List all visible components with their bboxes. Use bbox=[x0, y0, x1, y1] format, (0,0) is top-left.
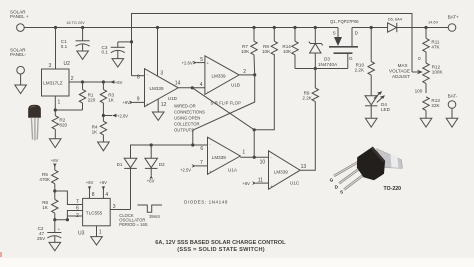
wire R1 bottom to ADJ node bbox=[55, 109, 82, 111]
svg-text:13: 13 bbox=[301, 164, 307, 170]
svg-text:TO-220: TO-220 bbox=[384, 186, 402, 192]
wire 555 pin 4 +6V bbox=[99, 180, 107, 199]
capacitor C2 electrolytic bbox=[37, 220, 61, 243]
svg-text:TLC555: TLC555 bbox=[86, 210, 103, 215]
node pulse waveform 39mS bbox=[138, 205, 163, 219]
node junction gate bbox=[314, 67, 317, 70]
svg-text:COLLECTOR: COLLECTOR bbox=[174, 121, 200, 126]
wire U1D pin 9 +6V bbox=[122, 100, 144, 105]
node junction R1 top bbox=[81, 80, 84, 83]
wire U1B pin 5 +2.6V bbox=[182, 60, 205, 65]
svg-text:S: S bbox=[333, 30, 336, 35]
svg-text:2: 2 bbox=[243, 69, 246, 75]
diode D3 zener 1N4740A bbox=[309, 28, 338, 69]
wire U1C pin 11 +6V bbox=[242, 181, 268, 186]
node junction ADJ bbox=[54, 108, 57, 111]
svg-text:S-R FLIP FLOP: S-R FLIP FLOP bbox=[211, 101, 242, 106]
svg-text:+6V: +6V bbox=[115, 80, 123, 85]
node +6V flag above R5 bbox=[51, 158, 59, 170]
wire LM317 output +6V line bbox=[69, 81, 110, 83]
svg-text:MAX: MAX bbox=[398, 63, 408, 68]
svg-text:100: 100 bbox=[415, 88, 423, 93]
wire U1D output 14 to U1B pin 4 bbox=[178, 87, 205, 89]
op-amp U1D LM339 bbox=[145, 69, 179, 107]
svg-text:D2: D2 bbox=[159, 162, 165, 167]
svg-text:+2.6V: +2.6V bbox=[182, 60, 193, 65]
svg-text:6: 6 bbox=[200, 146, 203, 152]
svg-text:LM339: LM339 bbox=[274, 169, 288, 174]
resistor R14 bbox=[282, 28, 298, 69]
terminal BAT+ bbox=[448, 15, 460, 32]
ground BAT- bbox=[446, 118, 458, 127]
svg-text:39mS: 39mS bbox=[149, 214, 160, 219]
wire drain segment to D5 bbox=[352, 27, 388, 29]
svg-text:U1B: U1B bbox=[231, 83, 240, 88]
svg-text:12: 12 bbox=[161, 102, 167, 108]
wire D5 to BAT+ bbox=[397, 27, 448, 29]
wire main 16-20V rail (source segment) bbox=[24, 27, 338, 29]
wire U1A pin 7 +2.5V bbox=[180, 164, 208, 172]
svg-text:7: 7 bbox=[76, 199, 79, 205]
svg-text:U1A: U1A bbox=[228, 167, 238, 172]
svg-text:3: 3 bbox=[49, 63, 52, 69]
wire LM317 ADJ pin 1 bbox=[54, 96, 56, 110]
resistor R6 bbox=[42, 191, 58, 220]
wire wired-or node line bbox=[131, 145, 208, 158]
svg-text:2.2K: 2.2K bbox=[355, 68, 365, 73]
svg-text:+6V: +6V bbox=[147, 178, 155, 183]
ground D4 bbox=[365, 118, 377, 127]
svg-text:LED: LED bbox=[381, 107, 391, 112]
svg-text:14: 14 bbox=[175, 80, 181, 86]
wire solar minus to ground bbox=[20, 74, 22, 85]
svg-text:(SSS = SOLID STATE SWITCH): (SSS = SOLID STATE SWITCH) bbox=[177, 247, 265, 253]
transistor Q1 FQP27P06 P-MOSFET bbox=[329, 19, 359, 69]
svg-text:2.2K: 2.2K bbox=[302, 95, 312, 100]
svg-text:PANEL-: PANEL- bbox=[10, 52, 27, 57]
transistor TO-92 package photo bbox=[29, 105, 41, 141]
svg-text:+6V: +6V bbox=[242, 181, 250, 186]
svg-text:U1D: U1D bbox=[168, 96, 178, 101]
transistor TO-220 package photo bbox=[330, 147, 403, 195]
node title bbox=[155, 240, 286, 253]
resistor R1 bbox=[79, 82, 95, 110]
op-amp U1A LM339 bbox=[208, 137, 241, 174]
potentiometer R12 MAX VOLTAGE ADJUST bbox=[412, 63, 443, 93]
resistor R8 bbox=[262, 28, 278, 55]
svg-text:4: 4 bbox=[105, 192, 108, 198]
svg-text:LM317LZ: LM317LZ bbox=[43, 81, 63, 86]
node junction C1 bbox=[81, 26, 84, 29]
svg-text:D1: D1 bbox=[117, 162, 123, 167]
wire flip-flop cross U1D out to reset node bbox=[192, 88, 254, 130]
ground C1 bbox=[77, 51, 89, 59]
svg-text:G: G bbox=[349, 56, 353, 61]
resistor R3 bbox=[100, 82, 115, 116]
capacitor C1 bbox=[61, 28, 90, 52]
svg-text:8: 8 bbox=[137, 75, 140, 81]
node junction U1A out bbox=[253, 156, 256, 159]
ground R2 bbox=[49, 139, 61, 148]
wire reset node to U1A output node bbox=[253, 130, 255, 157]
svg-text:1: 1 bbox=[99, 230, 102, 236]
op-amp U1C LM339 bbox=[269, 151, 301, 190]
node WIRED-OR note bbox=[174, 103, 205, 132]
diode D2 bbox=[145, 145, 165, 168]
ground R4 bbox=[98, 142, 110, 151]
svg-text:10K: 10K bbox=[262, 49, 271, 54]
svg-text:0.1: 0.1 bbox=[61, 44, 68, 49]
terminal SOLAR PANEL - bbox=[10, 47, 27, 74]
timer U3 TLC555 bbox=[83, 198, 111, 225]
node junction D2 top bbox=[150, 143, 153, 146]
svg-text:LM339: LM339 bbox=[212, 73, 226, 78]
node junction R11 top bbox=[424, 26, 427, 29]
svg-text:D5, 6A4: D5, 6A4 bbox=[388, 16, 403, 21]
svg-text:+2.6V: +2.6V bbox=[117, 114, 128, 119]
svg-text:820: 820 bbox=[59, 122, 67, 127]
svg-text:DIODES: 1N4148: DIODES: 1N4148 bbox=[184, 200, 228, 205]
svg-text:4: 4 bbox=[200, 82, 203, 88]
svg-text:10K: 10K bbox=[241, 49, 250, 54]
resistor R9 bbox=[302, 69, 318, 105]
svg-text:0: 0 bbox=[418, 56, 421, 61]
svg-text:220: 220 bbox=[88, 97, 96, 102]
wire D1 cathode to clock bbox=[130, 168, 132, 209]
ground U1D pin 12 bbox=[152, 112, 164, 120]
svg-text:LM339: LM339 bbox=[212, 155, 226, 160]
wire U1B output 2 bbox=[239, 74, 255, 76]
node junction R7 top bbox=[252, 26, 255, 29]
svg-text:1: 1 bbox=[58, 100, 61, 106]
svg-text:USING OPEN: USING OPEN bbox=[174, 115, 200, 120]
wire C3 tap bbox=[118, 41, 132, 43]
wire 555 output pin 3 to D1 bbox=[110, 209, 130, 211]
capacitor C3 bbox=[102, 42, 125, 59]
svg-text:WIRED-OR: WIRED-OR bbox=[174, 103, 196, 108]
svg-text:10K: 10K bbox=[283, 49, 292, 54]
node junction C3 tap bbox=[130, 40, 133, 43]
node junction R5 R6 bbox=[53, 189, 56, 192]
op-amp U1B LM339 bbox=[205, 56, 240, 95]
svg-text:0.1: 0.1 bbox=[102, 50, 109, 55]
node +6V flag at regulator output bbox=[110, 80, 123, 85]
terminal BAT- bbox=[448, 94, 458, 109]
node junction R14 top bbox=[293, 26, 296, 29]
resistor R10 bbox=[355, 28, 375, 96]
regulator U2 LM317LZ bbox=[42, 69, 70, 96]
ground solar minus bbox=[15, 85, 27, 94]
node junction D3 top bbox=[314, 26, 317, 29]
svg-text:9: 9 bbox=[137, 96, 140, 102]
wire sense into U1D pin 8 bbox=[132, 75, 145, 77]
node junction R8 top bbox=[273, 26, 276, 29]
resistor R7 bbox=[241, 28, 257, 75]
wire R5-R6 junction to 555 pin 7 bbox=[55, 191, 83, 205]
svg-text:S: S bbox=[340, 190, 343, 195]
ground R13 bbox=[420, 118, 432, 127]
svg-text:PANEL +: PANEL + bbox=[10, 14, 29, 19]
node junction +2.6V divider bbox=[102, 114, 105, 117]
svg-text:+6V: +6V bbox=[51, 158, 59, 163]
ground 555 pin 1 bbox=[91, 237, 103, 245]
svg-text:470K: 470K bbox=[39, 177, 51, 182]
ground C2 bbox=[49, 242, 61, 250]
svg-text:CONNECTIONS: CONNECTIONS bbox=[174, 109, 205, 114]
svg-text:LM339: LM339 bbox=[150, 86, 164, 91]
svg-text:U3: U3 bbox=[78, 230, 85, 236]
svg-text:PERIOD = 16S: PERIOD = 16S bbox=[119, 222, 147, 227]
wire U1C output 13 to R9 bbox=[300, 105, 315, 171]
diode D1 bbox=[117, 158, 137, 168]
wire LM317 input pin 3 bbox=[55, 28, 57, 70]
svg-text:6: 6 bbox=[76, 206, 79, 212]
resistor R13 bbox=[423, 97, 441, 119]
svg-text:1K: 1K bbox=[42, 205, 49, 210]
svg-text:14.6V: 14.6V bbox=[428, 19, 439, 24]
diode D5 6A4 bbox=[388, 16, 403, 32]
svg-text:+6V: +6V bbox=[86, 180, 94, 185]
svg-text:25V: 25V bbox=[37, 236, 46, 241]
svg-text:BAT+: BAT+ bbox=[448, 15, 460, 20]
terminal SOLAR PANEL + bbox=[10, 9, 29, 31]
svg-text:U1C: U1C bbox=[290, 180, 300, 185]
svg-text:1: 1 bbox=[242, 150, 245, 156]
ground C3 bbox=[112, 59, 124, 67]
resistor R5 bbox=[39, 170, 58, 191]
svg-text:ADJUST: ADJUST bbox=[392, 74, 410, 79]
node junction R3 top bbox=[102, 80, 105, 83]
svg-text:+6V: +6V bbox=[122, 100, 130, 105]
svg-text:+2.5V: +2.5V bbox=[180, 167, 191, 172]
node clock oscillator note bbox=[119, 213, 147, 227]
svg-text:16 TO 20V: 16 TO 20V bbox=[66, 21, 85, 25]
resistor R4 bbox=[92, 116, 107, 143]
svg-text:+6V: +6V bbox=[99, 180, 107, 185]
wire gate node bbox=[295, 68, 348, 70]
wire flip-flop cross U1B out to wired-or node bbox=[193, 75, 255, 145]
node junction R6 C2 bbox=[53, 218, 56, 221]
svg-text:2: 2 bbox=[76, 213, 79, 219]
svg-text:22K: 22K bbox=[431, 103, 440, 108]
svg-text:OUTPUTS: OUTPUTS bbox=[174, 127, 194, 132]
svg-text:Q1, FQP27P06: Q1, FQP27P06 bbox=[330, 19, 359, 24]
svg-text:10: 10 bbox=[260, 160, 266, 166]
resistor R11 bbox=[423, 28, 441, 64]
pin labels TLC555 left bbox=[76, 199, 79, 219]
node junction reset bbox=[253, 128, 256, 131]
wire R8 pulldown leg bbox=[254, 54, 274, 130]
wire U1A output to U1C pin 10 bbox=[240, 156, 268, 158]
wire U1D Vcc pin 3 bbox=[157, 28, 159, 77]
wire 555 pin 1 ground lead bbox=[96, 226, 98, 237]
svg-text:1K: 1K bbox=[108, 97, 115, 102]
node junction pins 2-6 tie bbox=[66, 218, 69, 221]
wire 555 pin 8 +6V bbox=[86, 180, 94, 199]
svg-text:3: 3 bbox=[113, 204, 116, 210]
svg-text:D3: D3 bbox=[324, 57, 330, 62]
node +6V flag below D2 bbox=[147, 168, 155, 183]
svg-text:11: 11 bbox=[258, 177, 263, 183]
svg-text:2: 2 bbox=[71, 76, 74, 82]
svg-text:BAT-: BAT- bbox=[448, 94, 458, 99]
node junction LM317 input bbox=[54, 26, 57, 29]
svg-text:47K: 47K bbox=[431, 45, 440, 50]
node junction flip-flop set bbox=[191, 86, 194, 89]
wire trigger-threshold tie to pins 6 and 2 bbox=[55, 211, 83, 220]
svg-text:VOLTAGE: VOLTAGE bbox=[389, 69, 410, 74]
svg-text:7: 7 bbox=[200, 160, 203, 166]
svg-text:100K: 100K bbox=[432, 69, 444, 74]
svg-text:U2: U2 bbox=[64, 61, 71, 67]
resistor R2 bbox=[52, 110, 67, 139]
wire BAT- to ground bbox=[451, 108, 453, 118]
node junction U1D Vcc bbox=[156, 26, 159, 29]
svg-text:5: 5 bbox=[200, 57, 203, 63]
node junction U1B out R7 bbox=[253, 73, 256, 76]
node junction wired-or set bbox=[191, 143, 194, 146]
svg-text:1K: 1K bbox=[92, 130, 99, 135]
node +2.6V flag bbox=[103, 114, 128, 119]
node junction R10 top bbox=[370, 26, 373, 29]
node MAX VOLTAGE ADJUST label bbox=[389, 63, 410, 79]
svg-text:6A, 12V SSS BASED SOLAR CHARGE: 6A, 12V SSS BASED SOLAR CHARGE CONTROL bbox=[155, 240, 286, 246]
svg-text:8: 8 bbox=[92, 192, 95, 198]
svg-text:G: G bbox=[330, 177, 334, 182]
svg-text:1N4740A: 1N4740A bbox=[318, 62, 338, 67]
wire battery sense feedback top line bbox=[132, 14, 413, 76]
diode D4 LED bbox=[365, 91, 391, 118]
svg-text:3: 3 bbox=[160, 70, 163, 76]
wire U1D gnd pin 12 bbox=[157, 99, 159, 112]
